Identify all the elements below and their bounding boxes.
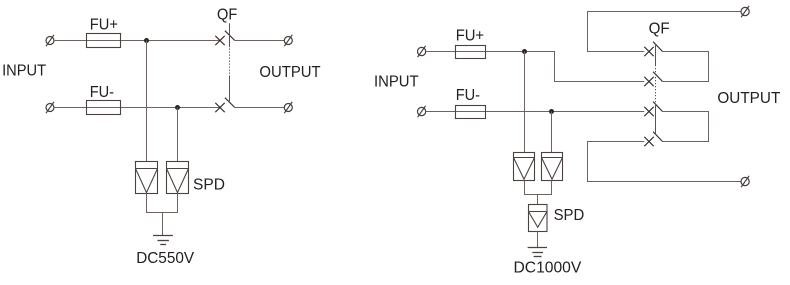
wire SPD drop from FU- node bbox=[177, 108, 179, 162]
wire series loop poles 1-2 bbox=[663, 52, 709, 82]
svg-text:SPD: SPD bbox=[554, 207, 585, 224]
output terminal T3 bbox=[284, 35, 292, 46]
wire earth stem bbox=[162, 213, 164, 236]
wire output- bottom run bbox=[588, 142, 741, 182]
breaker QF pole 1 contact X bbox=[215, 36, 224, 45]
SPD F1 (varistor box) bbox=[136, 162, 158, 194]
breaker QF2 pole 2 blade bbox=[653, 72, 662, 82]
wire SPD bottoms to common bar bbox=[147, 194, 178, 213]
breaker QF pole 1 blade bbox=[225, 31, 235, 41]
wire SPD drop from FU+ node bbox=[146, 41, 148, 162]
SPD F4 (varistor box) bbox=[542, 153, 563, 181]
breaker QF2 pole 4 contact X bbox=[644, 137, 653, 146]
node junction dot on FU+ bbox=[144, 38, 149, 43]
wire pole 1 output bbox=[235, 40, 284, 42]
wire FU+ input line bbox=[54, 40, 221, 42]
input terminal T2 (FU- line) bbox=[46, 102, 54, 113]
svg-text:FU-: FU- bbox=[90, 84, 114, 101]
svg-text:FU-: FU- bbox=[456, 87, 480, 104]
wire SPD drop from FU- node (right) bbox=[551, 112, 553, 153]
wire SPD bottoms to common bar (right) bbox=[525, 181, 552, 195]
output terminal T8 (bottom right) bbox=[741, 176, 749, 187]
svg-text:OUTPUT: OUTPUT bbox=[717, 90, 780, 107]
wire pole 2 output bbox=[235, 107, 284, 109]
breaker QF pole 2 blade bbox=[225, 98, 235, 108]
fuse FU+ bbox=[87, 34, 121, 48]
breaker QF2 pole 3 contact X bbox=[644, 107, 653, 116]
svg-text:FU+: FU+ bbox=[90, 17, 118, 34]
svg-text:DC550V: DC550V bbox=[136, 250, 194, 267]
fuse FU- bbox=[87, 101, 121, 115]
fuse FU- (right) bbox=[456, 106, 486, 119]
input terminal T6 (FU- line) bbox=[418, 106, 426, 117]
svg-text:QF: QF bbox=[217, 6, 237, 23]
wire SPD drop from FU+ node (right) bbox=[524, 52, 526, 153]
wire SPD F5 to earth bbox=[537, 232, 539, 248]
SPD F5 (series varistor box) bbox=[529, 205, 548, 232]
breaker QF2 pole 2 contact X bbox=[644, 77, 653, 86]
node junction dot FU+ (right) bbox=[522, 49, 527, 54]
breaker QF2 pole 1 contact X bbox=[644, 47, 653, 56]
wire output+ top run bbox=[588, 12, 741, 52]
breaker QF2 pole 3 blade bbox=[653, 102, 662, 112]
input terminal T1 (FU+ line) bbox=[46, 35, 54, 46]
svg-text:SPD: SPD bbox=[193, 177, 225, 194]
wire FU+ input line to jog bbox=[426, 52, 645, 82]
linkage rod of QF2 (solid-dotted-solid) bbox=[655, 44, 657, 135]
breaker QF pole 2 contact X bbox=[215, 103, 224, 112]
svg-text:INPUT: INPUT bbox=[2, 63, 46, 80]
svg-text:DC1000V: DC1000V bbox=[514, 259, 582, 276]
linkage rod of QF (solid-dotted-solid) bbox=[229, 23, 231, 101]
svg-text:INPUT: INPUT bbox=[374, 73, 419, 90]
svg-text:QF: QF bbox=[649, 20, 670, 37]
wire series loop poles 3-4 bbox=[663, 112, 709, 142]
ground (left) bbox=[153, 236, 173, 245]
SPD F3 (varistor box) bbox=[514, 153, 535, 181]
breaker QF2 pole 4 blade bbox=[653, 132, 662, 142]
wire FU- input line bbox=[54, 107, 221, 109]
input terminal T5 (FU+ line) bbox=[418, 46, 426, 57]
wire FU- input line bbox=[426, 111, 645, 113]
breaker QF2 pole 1 blade bbox=[653, 42, 662, 52]
output terminal T7 (top right) bbox=[741, 6, 749, 17]
output terminal T4 bbox=[284, 102, 292, 113]
node junction dot on FU- bbox=[175, 105, 180, 110]
SPD F2 (varistor box) bbox=[167, 162, 189, 194]
svg-text:OUTPUT: OUTPUT bbox=[259, 64, 320, 81]
fuse FU+ (right) bbox=[456, 46, 486, 59]
svg-text:FU+: FU+ bbox=[456, 27, 484, 44]
node junction dot FU- (right) bbox=[549, 109, 554, 114]
ground (right) bbox=[528, 248, 547, 257]
wire bar to SPD F5 bbox=[537, 195, 539, 205]
